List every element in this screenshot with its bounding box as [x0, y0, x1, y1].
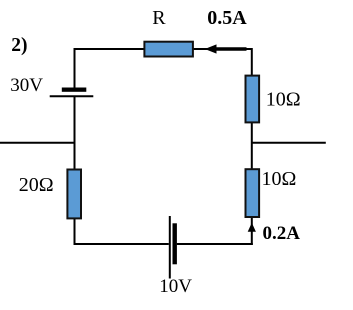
battery 30V thick plate	[62, 88, 87, 92]
svg-text:10Ω: 10Ω	[262, 168, 297, 190]
svg-text:10V: 10V	[159, 276, 192, 297]
svg-text:0.2A: 0.2A	[263, 223, 301, 244]
resistor 10ohm upper	[246, 76, 260, 123]
resistor R	[144, 42, 193, 57]
current arrow 0.2A	[248, 223, 256, 232]
svg-text:2): 2)	[11, 35, 27, 56]
wire left lower	[74, 96, 76, 245]
current arrow 0.5A	[205, 44, 247, 53]
wire bottom right	[177, 243, 253, 245]
svg-text:0.5A: 0.5A	[207, 7, 247, 29]
svg-text:30V: 30V	[10, 75, 43, 96]
resistor 10ohm lower	[246, 169, 260, 217]
resistor 20ohm	[67, 170, 81, 219]
wire left upper	[74, 48, 76, 88]
wire right	[251, 48, 253, 245]
right rail node	[252, 142, 326, 144]
svg-text:10Ω: 10Ω	[266, 88, 301, 110]
svg-text:20Ω: 20Ω	[19, 174, 54, 196]
left rail node	[0, 142, 75, 144]
svg-text:R: R	[152, 7, 166, 29]
battery 10V thin plate	[169, 216, 171, 279]
wire bottom left	[74, 243, 169, 245]
battery 30V thin plate	[50, 95, 94, 97]
wire top	[75, 48, 252, 50]
battery 10V thick plate	[173, 223, 177, 264]
